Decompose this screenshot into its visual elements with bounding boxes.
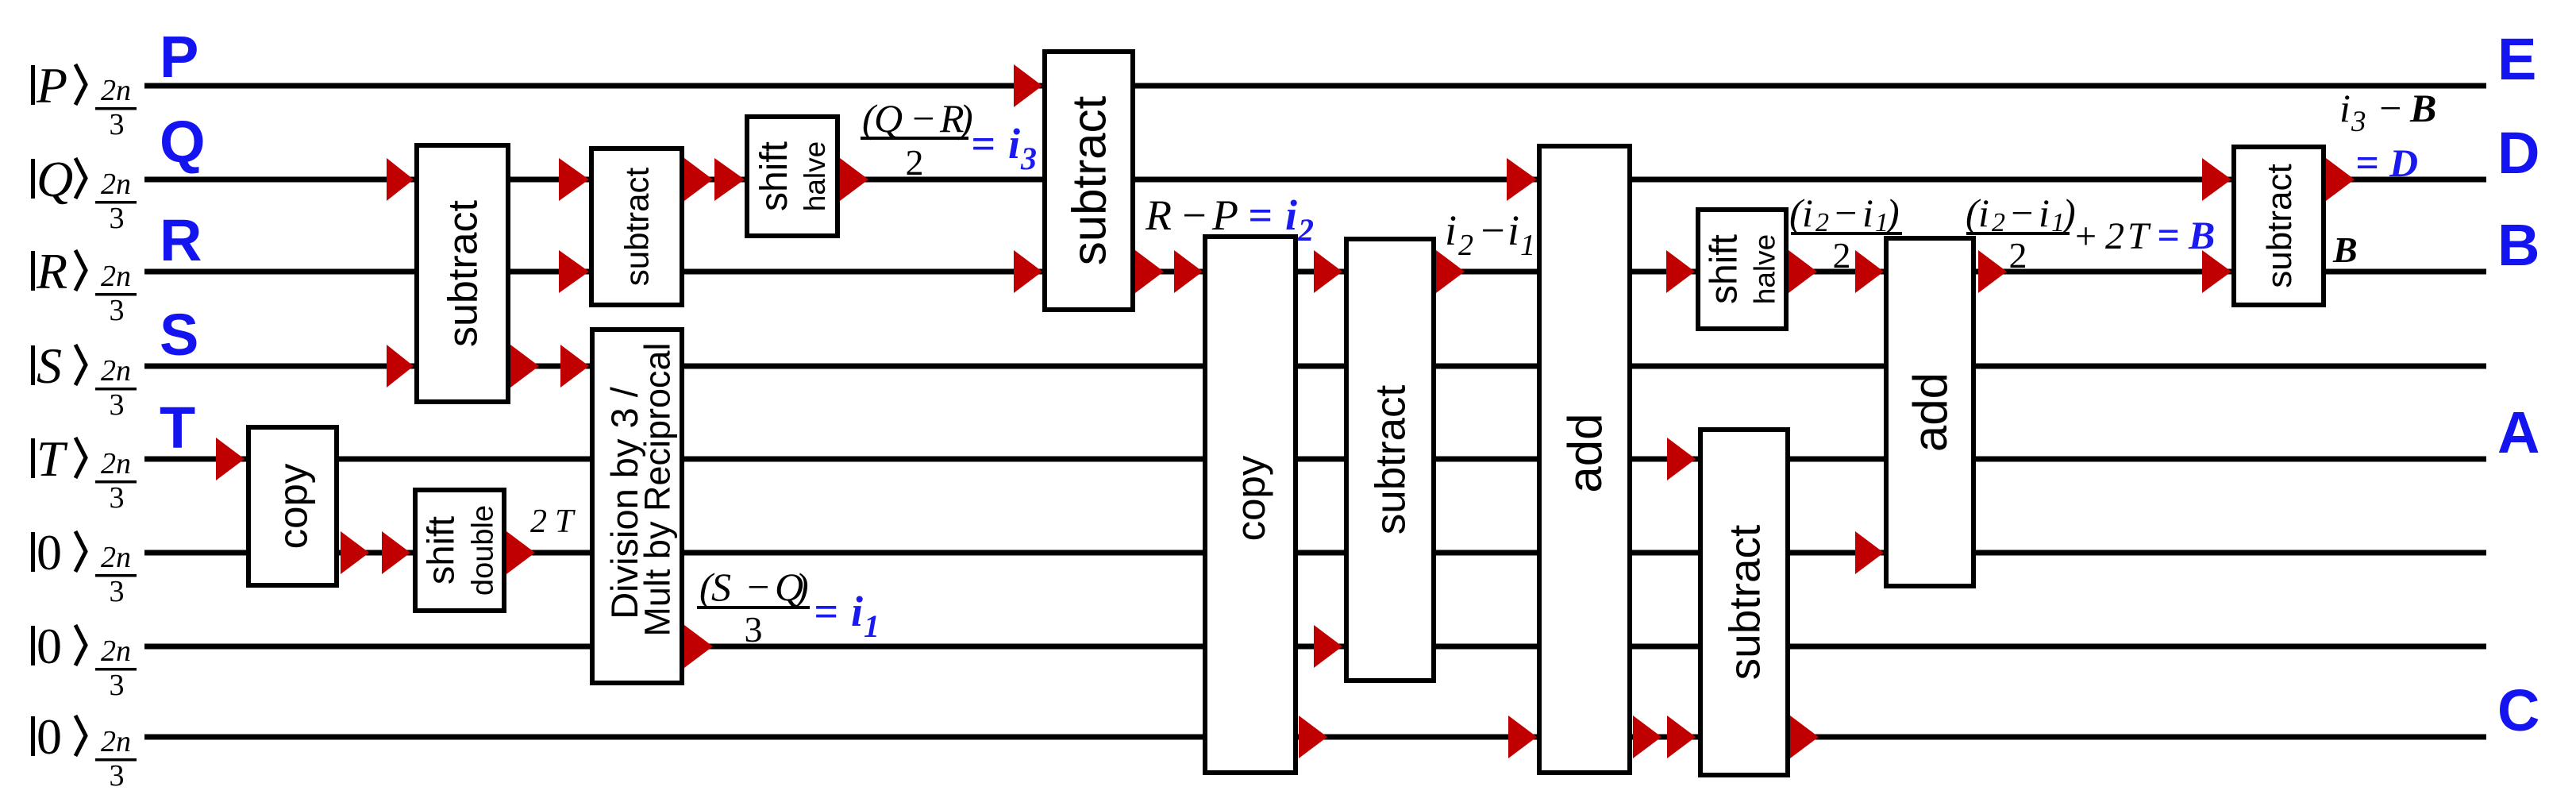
label 2T (doubled T)	[530, 503, 576, 540]
svg-text:3: 3	[110, 669, 125, 702]
svg-text:2n: 2n	[101, 260, 131, 293]
gate division U5 (divide by 3)	[592, 330, 682, 683]
svg-text:copy: copy	[270, 463, 315, 549]
svg-text:subtract: subtract	[1719, 525, 1769, 681]
svg-text:i: i	[1978, 191, 1989, 235]
arrow S out of subtract U1	[510, 345, 539, 388]
arrow Q out of subtract U2	[684, 158, 713, 201]
svg-text:copy: copy	[1228, 455, 1273, 541]
svg-text:D: D	[2389, 141, 2418, 185]
svg-text:i: i	[2339, 86, 2351, 130]
svg-text:i: i	[1008, 120, 1020, 168]
label (S-Q)/3 = i1	[697, 565, 880, 650]
svg-text:halve: halve	[799, 141, 831, 211]
svg-text:R: R	[36, 243, 67, 299]
svg-text:halve: halve	[1748, 234, 1781, 304]
wire P	[144, 83, 2486, 89]
arrow Q into add U8	[1507, 158, 1537, 201]
svg-text:2n: 2n	[101, 74, 131, 107]
svg-text:2n: 2n	[101, 168, 131, 201]
gate add U8	[1539, 146, 1630, 773]
label i3 - B	[2339, 86, 2436, 138]
arrow R out of subtract U3	[1135, 250, 1164, 293]
svg-text:i: i	[851, 588, 863, 635]
svg-text:2: 2	[1458, 229, 1473, 262]
svg-text:C: C	[2497, 677, 2539, 743]
svg-text:2: 2	[1297, 212, 1314, 248]
svg-text:−: −	[910, 96, 937, 141]
svg-text:T: T	[555, 503, 576, 540]
gate shift-halve U9	[1698, 210, 1786, 329]
arrow ancilla3 out of subtract U10	[1790, 715, 1819, 758]
arrow ancilla1 out of shift-double (2T)	[506, 531, 535, 574]
arrow R into subtract U12	[2202, 250, 2231, 293]
svg-text:−: −	[745, 565, 772, 609]
arrow R into subtract U3	[1014, 250, 1042, 293]
svg-text:3: 3	[110, 294, 125, 327]
svg-text:2: 2	[1833, 235, 1851, 276]
svg-text:shift: shift	[1703, 234, 1745, 304]
svg-text:2n: 2n	[101, 541, 131, 574]
svg-text:E: E	[2497, 26, 2536, 92]
arrow ancilla2 out of division U5 (i1)	[684, 625, 713, 668]
svg-text:R: R	[1145, 191, 1172, 239]
label (Q-R)/2 = i3	[861, 96, 1037, 183]
arrow R into shift-halve U9	[1666, 250, 1695, 293]
node label |R> 2n/3 (wire R)	[31, 243, 137, 327]
svg-text:3: 3	[110, 481, 125, 515]
svg-text:B: B	[2409, 86, 2436, 130]
gate subtract U1 (S-Q)	[417, 145, 508, 402]
svg-text:i: i	[2039, 191, 2050, 235]
svg-text:Q: Q	[874, 96, 903, 141]
wire ancilla-0 (third)	[144, 735, 2486, 740]
svg-text:shift: shift	[753, 141, 795, 211]
arrow ancilla1 into shift-double	[382, 531, 410, 574]
arrow P into subtract U3	[1014, 64, 1042, 107]
svg-text:B: B	[2188, 213, 2215, 257]
wire ancilla-0 (first)	[144, 550, 2486, 556]
wire Q	[144, 177, 2486, 183]
arrow ancilla3 into add U8	[1508, 715, 1537, 758]
gate shift-halve U4	[747, 117, 837, 236]
arrow R out of shift-halve U9	[1789, 250, 1817, 293]
node label |Q> 2n/3 (wire Q)	[31, 151, 137, 235]
gate subtract U3 (R-P)	[1045, 52, 1133, 310]
svg-text:add: add	[1904, 372, 1957, 452]
svg-text:subtract: subtract	[2260, 164, 2299, 288]
svg-text:2n: 2n	[101, 725, 131, 758]
arrow ancilla3 out of copy U6	[1299, 715, 1327, 758]
svg-text:Q: Q	[160, 109, 206, 175]
arrow Q into subtract U1	[387, 158, 414, 201]
arrow R into copy U6	[1174, 250, 1203, 293]
node label |S> 2n/3 (wire S)	[31, 337, 137, 422]
svg-text:=: =	[814, 588, 838, 635]
svg-text:0: 0	[37, 524, 62, 580]
gate subtract U7 (i2-i1)	[1346, 239, 1434, 681]
arrow R out of subtract U7	[1436, 250, 1465, 293]
label B (output wire R)	[2332, 229, 2358, 270]
svg-text:−: −	[1180, 191, 1208, 239]
svg-text:Q: Q	[37, 151, 73, 207]
arrow R into subtract U2	[559, 250, 589, 293]
svg-text:3: 3	[110, 759, 125, 793]
gate add U11	[1886, 238, 1973, 586]
arrow R out of add U11	[1978, 250, 2007, 293]
svg-text:subtract: subtract	[618, 167, 656, 286]
svg-text:3: 3	[110, 575, 125, 608]
svg-text:S: S	[160, 302, 198, 368]
svg-text:i: i	[1862, 191, 1873, 235]
arrow R into add U11	[1855, 250, 1884, 293]
svg-text:2: 2	[530, 503, 547, 540]
svg-text:2: 2	[2009, 235, 2027, 276]
arrow ancilla2 into subtract U7	[1314, 625, 1342, 668]
wire ancilla-0 (second)	[144, 644, 2486, 650]
svg-text:S: S	[37, 337, 62, 394]
svg-text:T: T	[37, 430, 68, 487]
arrow S into subtract U1	[387, 345, 414, 388]
arrow T into copy U0	[216, 438, 245, 480]
svg-text:shift: shift	[419, 516, 461, 584]
svg-text:P: P	[1211, 191, 1238, 239]
svg-text:T: T	[160, 395, 195, 461]
svg-text:=: =	[2355, 141, 2379, 186]
svg-text:2n: 2n	[101, 354, 131, 388]
wire S	[144, 364, 2486, 369]
svg-text:): )	[793, 565, 809, 609]
svg-text:R: R	[160, 207, 202, 273]
svg-text:subtract: subtract	[1063, 95, 1116, 265]
svg-text:2n: 2n	[101, 634, 131, 668]
node label |0> 2n/3 (wire W6)	[31, 524, 137, 608]
wire T	[144, 457, 2486, 462]
arrow Q out of subtract U12 (=D)	[2326, 158, 2355, 201]
svg-text:3: 3	[1020, 141, 1037, 176]
svg-text:3: 3	[745, 609, 763, 650]
svg-text:subtract: subtract	[1368, 384, 1415, 534]
arrow Q into subtract U2	[559, 158, 589, 201]
node label |P> 2n/3 (wire P)	[31, 57, 137, 141]
label (i2-i1)/2 (first)	[1789, 191, 1902, 276]
svg-text:): )	[2060, 191, 2076, 235]
svg-text:=: =	[2157, 213, 2180, 257]
svg-text:−: −	[2377, 86, 2404, 130]
svg-text:P: P	[36, 57, 67, 114]
svg-text:Mult by Reciprocal: Mult by Reciprocal	[637, 342, 677, 636]
svg-text:i: i	[1445, 206, 1457, 254]
svg-text:2: 2	[2105, 215, 2124, 257]
svg-text:i: i	[1507, 206, 1519, 254]
svg-text:−: −	[2008, 191, 2035, 235]
gate copy U0 (copy T)	[248, 427, 337, 585]
svg-text:3: 3	[110, 202, 125, 235]
node label |0> 2n/3 (wire W8)	[31, 708, 137, 793]
label i2-i1	[1445, 206, 1535, 262]
svg-text:): )	[1884, 191, 1900, 235]
svg-text:=: =	[971, 120, 995, 168]
gate shift-double (2T)	[415, 490, 504, 611]
svg-text:subtract: subtract	[441, 199, 487, 347]
gate copy U6 (copy i2)	[1205, 237, 1296, 773]
arrow ancilla1 into add U11	[1855, 531, 1884, 574]
svg-text:2n: 2n	[101, 447, 131, 480]
svg-text:B: B	[2332, 229, 2358, 270]
svg-text:=: =	[1248, 191, 1273, 239]
svg-text:i: i	[1802, 191, 1813, 235]
svg-text:0: 0	[37, 618, 62, 674]
svg-text:i: i	[1285, 191, 1297, 239]
svg-text:1: 1	[864, 608, 880, 644]
arrow ancilla3 out of add U8	[1633, 715, 1662, 758]
svg-text:2: 2	[906, 142, 924, 183]
svg-text:3: 3	[2351, 106, 2366, 138]
svg-text:3: 3	[110, 108, 125, 141]
svg-text:add: add	[1558, 413, 1611, 492]
arrow S into division U5	[560, 345, 589, 388]
gate subtract U12 (i3-B)	[2234, 147, 2324, 305]
svg-text:S: S	[711, 565, 731, 609]
svg-text:−: −	[1832, 191, 1859, 235]
svg-text:A: A	[2497, 399, 2539, 465]
svg-text:1: 1	[1520, 229, 1535, 262]
svg-text:B: B	[2497, 212, 2539, 278]
svg-text:P: P	[160, 24, 198, 90]
svg-text:T: T	[2127, 215, 2151, 257]
arrow ancilla1 out of copy U0	[341, 531, 369, 574]
gate subtract U10	[1700, 430, 1788, 775]
gate subtract U2 (Q-R)	[591, 148, 682, 305]
arrow Q into subtract U12	[2202, 158, 2231, 201]
svg-text:−: −	[1478, 206, 1507, 254]
svg-text:3: 3	[110, 388, 125, 422]
arrow T into subtract U10	[1667, 438, 1696, 480]
label (i2-i1)/2 + 2T = B	[1966, 191, 2215, 276]
svg-text:double: double	[466, 505, 499, 596]
arrow Q out of shift-halve U4	[840, 158, 868, 201]
label R-P = i2	[1145, 191, 1314, 248]
node label |T> 2n/3 (wire T)	[31, 430, 137, 515]
svg-text:+: +	[2075, 215, 2097, 257]
arrow ancilla3 into subtract U10	[1667, 715, 1696, 758]
svg-text:0: 0	[37, 708, 62, 765]
wire R	[144, 269, 2486, 275]
label = D (blue)	[2355, 141, 2418, 186]
arrow R into subtract U7	[1314, 250, 1342, 293]
node label |0> 2n/3 (wire W7)	[31, 618, 137, 702]
arrow Q into shift-halve U4	[714, 158, 745, 201]
svg-text:D: D	[2497, 120, 2539, 186]
